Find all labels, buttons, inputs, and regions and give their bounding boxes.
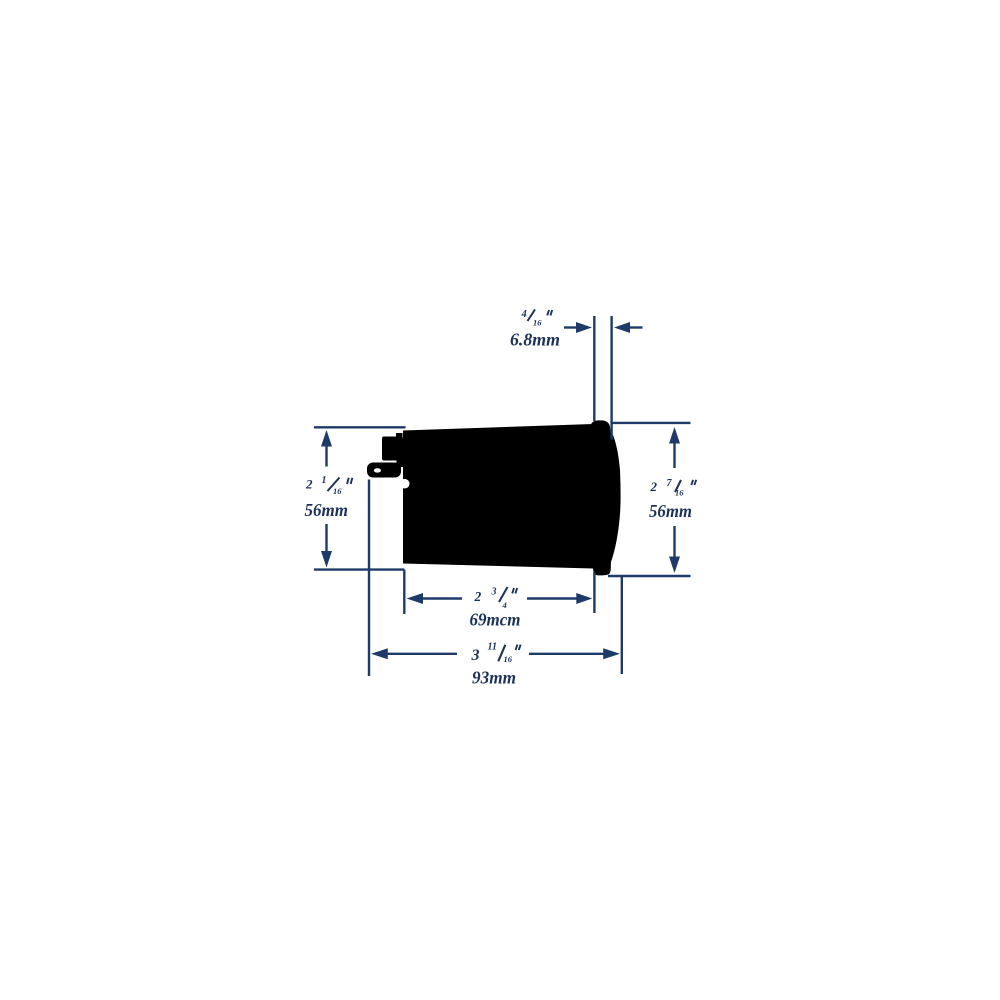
- bottom dim arrow right: [603, 648, 620, 659]
- left dim arrow up: [321, 430, 332, 447]
- mid dim arrow left: [407, 593, 424, 604]
- bottom dim left extension line: [368, 480, 370, 677]
- black part silhouette: [367, 420, 621, 575]
- block-spade joint: [397, 455, 404, 467]
- svg-text:56mm: 56mm: [649, 501, 692, 521]
- svg-text:56mm: 56mm: [305, 500, 349, 520]
- svg-text:4: 4: [502, 600, 507, 610]
- svg-text:16: 16: [675, 488, 684, 498]
- right dim shaft lower: [673, 526, 675, 559]
- mid dim arrow right: [576, 593, 592, 604]
- left dim arrow down: [321, 551, 332, 568]
- svg-text:69mcm: 69mcm: [470, 610, 521, 630]
- mid dim right shaft: [527, 597, 578, 599]
- svg-text:16: 16: [504, 654, 513, 664]
- svg-text:93mm: 93mm: [472, 668, 516, 688]
- bottom dim right extension line: [621, 577, 623, 675]
- right dim arrow down: [669, 557, 680, 574]
- spade terminal: [367, 463, 401, 478]
- bezel (lips + curved face): [591, 420, 621, 575]
- arrowheads: [321, 322, 680, 659]
- svg-text:2: 2: [474, 589, 482, 604]
- top dim arrow left: [614, 322, 630, 333]
- svg-text:1: 1: [322, 475, 327, 486]
- connector block: [382, 437, 403, 461]
- main body: [403, 424, 593, 569]
- mid dim left shaft: [421, 597, 462, 599]
- svg-text:4: 4: [521, 309, 527, 320]
- top dim left vertical line: [593, 316, 595, 421]
- right dim label 2 7/16": [650, 478, 697, 498]
- mid dim right extension line: [593, 572, 595, 614]
- right dim shaft upper: [673, 442, 675, 469]
- svg-text:3: 3: [491, 587, 497, 598]
- top dim arrow right: [576, 322, 592, 333]
- top dim right arrow shaft: [628, 326, 643, 328]
- svg-text:2: 2: [650, 479, 658, 494]
- right dim arrow up: [669, 427, 680, 444]
- left dim label 2 1/16": [305, 475, 352, 496]
- left dim shaft upper: [325, 444, 327, 467]
- spade terminal hole: [374, 468, 381, 472]
- bottom dim right shaft: [529, 653, 605, 655]
- bottom dim left shaft: [385, 653, 457, 655]
- top dim left arrow shaft: [564, 326, 578, 328]
- mid dim label 2 3/4": [474, 587, 518, 611]
- left dim shaft lower: [325, 524, 327, 554]
- left dim bottom extension line: [314, 568, 404, 570]
- right dim bottom extension line: [608, 575, 691, 577]
- dimension graphics: [314, 316, 691, 676]
- bottom dim arrow left: [371, 648, 388, 659]
- left dim top extension line: [314, 426, 406, 428]
- bottom dim label 3 11/16": [471, 642, 521, 665]
- body notch: [400, 479, 410, 489]
- svg-text:16: 16: [333, 486, 342, 496]
- svg-text:2: 2: [305, 477, 313, 492]
- top dim label 4/16": [521, 309, 553, 328]
- svg-text:3: 3: [471, 647, 480, 664]
- right dim top extension line: [612, 422, 691, 424]
- block top bump: [396, 433, 403, 438]
- svg-text:11: 11: [488, 642, 497, 653]
- svg-text:16: 16: [533, 318, 542, 328]
- mid dim left extension line: [403, 570, 405, 614]
- svg-text:6.8mm: 6.8mm: [510, 330, 560, 350]
- top dim right vertical line: [610, 316, 612, 440]
